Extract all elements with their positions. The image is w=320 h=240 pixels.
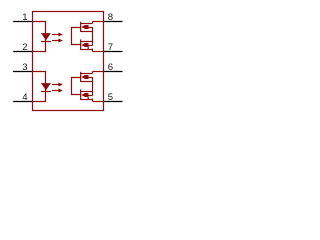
svg-text:7: 7 xyxy=(108,42,113,53)
svg-text:3: 3 xyxy=(22,62,27,73)
svg-text:2: 2 xyxy=(22,42,27,53)
svg-text:1: 1 xyxy=(22,12,27,23)
svg-text:4: 4 xyxy=(22,92,28,103)
svg-text:6: 6 xyxy=(108,62,113,73)
svg-text:8: 8 xyxy=(108,12,113,23)
svg-text:5: 5 xyxy=(108,92,113,103)
